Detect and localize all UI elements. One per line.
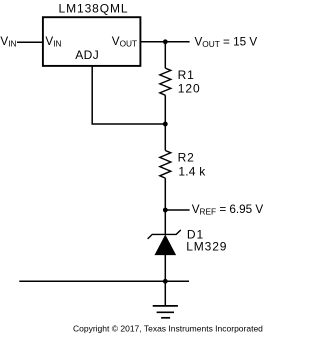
svg-text:1.4 k: 1.4 k (178, 164, 206, 178)
svg-text:Copyright © 2017, Texas Instru: Copyright © 2017, Texas Instruments Inco… (73, 324, 263, 334)
wire D1 to ground rail (164, 255, 166, 281)
zener diode D1 anode triangle (155, 235, 176, 255)
wire VOUT node to R1 (164, 42, 166, 68)
svg-text:R2: R2 (178, 151, 195, 165)
svg-text:VREF = 6.95 V: VREF = 6.95 V (192, 203, 264, 217)
svg-text:VOUT = 15 V: VOUT = 15 V (195, 36, 258, 50)
wire R1 to R2 (164, 95, 166, 150)
wire R2 to D1 (164, 178, 166, 234)
wire ground node to ground symbol (164, 281, 166, 306)
wire VOUT pin to label (140, 41, 189, 43)
junction dot VOUT node (163, 39, 168, 44)
zener diode D1 cathode bar (148, 230, 181, 239)
wire ground rail (19, 280, 189, 282)
svg-text:LM138QML: LM138QML (59, 2, 129, 16)
wire VREF node to label (165, 209, 189, 211)
resistor R1 (160, 68, 171, 95)
svg-text:LM329: LM329 (186, 239, 227, 253)
resistor R2 (160, 151, 171, 179)
junction dot ground node (163, 279, 168, 284)
svg-text:ADJ: ADJ (75, 48, 99, 62)
ground (153, 306, 178, 318)
svg-text:VOUT: VOUT (112, 35, 137, 49)
svg-text:VIN: VIN (0, 35, 16, 49)
junction dot ADJ node (163, 122, 168, 127)
svg-text:R1: R1 (178, 68, 195, 82)
svg-text:120: 120 (178, 82, 201, 96)
junction dot VREF node (163, 208, 168, 213)
wire ADJ pin to divider node (92, 66, 165, 124)
wire VIN input to regulator (17, 41, 43, 43)
svg-text:VIN: VIN (45, 35, 61, 49)
regulator U1 body (43, 17, 140, 66)
